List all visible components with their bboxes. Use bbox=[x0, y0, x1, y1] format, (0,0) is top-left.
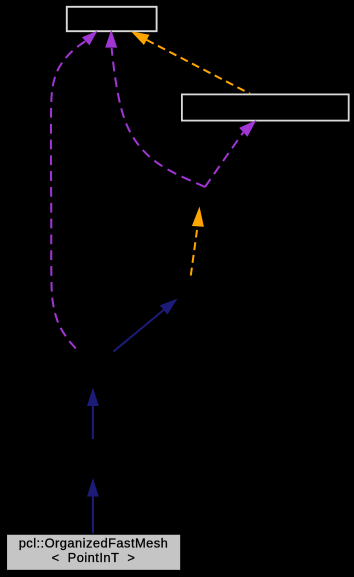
node pcl::OrganizedFastMesh (gray filled) bbox=[6, 534, 181, 571]
edge E4 purple dashed (junction to right box) bbox=[205, 132, 243, 187]
edge V2 navy solid vertical (invisible to invisible) bbox=[92, 406, 94, 439]
arrowhead E1 purple bbox=[82, 31, 98, 45]
label < PointInT > line 2 bbox=[52, 550, 136, 565]
node box top (empty, light border) bbox=[67, 7, 157, 31]
node box right (empty, light border) bbox=[182, 94, 349, 120]
arrowhead V1 navy bbox=[87, 478, 99, 497]
arrowhead E6 navy bbox=[160, 299, 178, 315]
arrowhead V2 navy bbox=[87, 388, 99, 407]
arrowhead E2 purple bbox=[105, 30, 117, 48]
svg-text:pcl::OrganizedFastMesh: pcl::OrganizedFastMesh bbox=[19, 536, 169, 551]
arrowhead E4 purple bbox=[239, 120, 256, 137]
edge V1 navy solid vertical (node to invisible) bbox=[92, 496, 94, 534]
svg-text:< PointInT >: < PointInT > bbox=[52, 550, 136, 565]
edge E5 orange dashed (right box to top box) bbox=[147, 40, 250, 94]
edge E1 purple dashed curve (bottom junction to top box) bbox=[51, 41, 85, 351]
edge E3 orange dashed (stub up to junction) bbox=[191, 230, 197, 276]
label pcl::OrganizedFastMesh line 1 bbox=[19, 536, 169, 551]
edge E6 navy solid diagonal bbox=[114, 310, 164, 352]
arrowhead E5 orange bbox=[131, 31, 150, 45]
edge E2 purple dashed curve (junction to top box) bbox=[112, 48, 205, 187]
arrowhead E3 orange bbox=[192, 207, 204, 227]
